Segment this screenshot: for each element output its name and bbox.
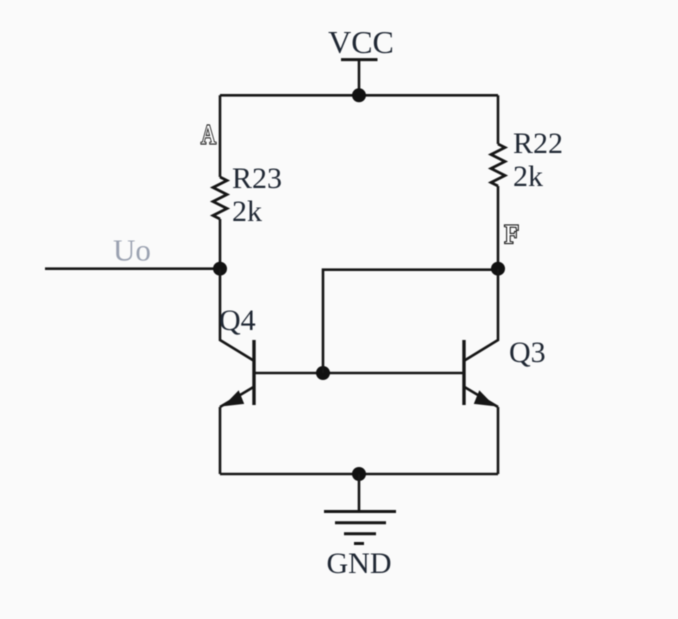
transistor Q3 [464, 340, 498, 407]
svg-text:Q3: Q3 [509, 336, 546, 369]
svg-text:2k: 2k [513, 160, 543, 193]
junction dot base node [316, 366, 330, 380]
wire left branch upper [219, 95, 222, 177]
power symbol VCC [341, 60, 378, 96]
wire R22 to node F [497, 186, 500, 269]
wire R23 to node [219, 219, 222, 269]
ground symbol [324, 512, 396, 544]
wire Q4 emitter down [219, 407, 222, 474]
junction dot ground node [352, 467, 366, 481]
svg-text:R23: R23 [232, 162, 282, 195]
wire base bus [254, 372, 463, 375]
wire ground stub [358, 474, 361, 512]
wire bottom rail [220, 473, 498, 476]
junction dot node F [491, 262, 505, 276]
resistor R23 [213, 177, 227, 219]
wire Q4 collector [220, 269, 254, 361]
svg-text:VCC: VCC [328, 24, 394, 60]
wire Q3 emitter down [497, 407, 500, 474]
svg-text:Q4: Q4 [219, 304, 256, 337]
wire feedback base to node F [323, 270, 498, 373]
svg-text:Uo: Uo [113, 233, 151, 268]
transistor Q4 [220, 340, 254, 407]
wire top rail [220, 94, 498, 97]
svg-text:R22: R22 [513, 127, 563, 160]
wire Q3 collector [465, 269, 499, 361]
junction dot node A/Uo [213, 262, 227, 276]
svg-text:F: F [504, 220, 518, 249]
svg-text:GND: GND [327, 547, 392, 580]
wire input Uo [45, 267, 220, 270]
wire right branch upper [497, 95, 500, 144]
resistor R22 [491, 144, 505, 186]
junction dot VCC tap [352, 88, 366, 102]
svg-text:2k: 2k [232, 195, 262, 228]
svg-text:A: A [201, 120, 216, 150]
